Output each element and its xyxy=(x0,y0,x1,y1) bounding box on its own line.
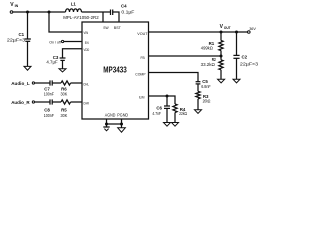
wire AGND stub xyxy=(106,119,108,127)
wire R6 to pin CHL xyxy=(71,82,82,84)
svg-text:IN: IN xyxy=(15,4,19,8)
wire top rail from VIN terminal to inductor xyxy=(13,11,66,13)
wire VIN drop to pin VIN xyxy=(49,12,82,32)
pin label VOUT xyxy=(137,32,147,36)
svg-text:30K: 30K xyxy=(61,92,69,97)
svg-text:C2: C2 xyxy=(242,54,248,59)
svg-text:Audio_L: Audio_L xyxy=(11,81,30,87)
svg-text:COMP: COMP xyxy=(135,73,146,77)
svg-text:Audio_R: Audio_R xyxy=(11,100,30,106)
svg-text:R6: R6 xyxy=(61,86,67,91)
capacitor C4 label xyxy=(121,4,135,15)
resistor R1 label xyxy=(201,41,215,51)
pin label ILIM xyxy=(139,96,145,100)
wire rail inductor to C4 xyxy=(82,11,111,13)
capacitor C3 label xyxy=(46,55,58,64)
ground below R4 xyxy=(172,123,179,127)
svg-text:33.2kΩ: 33.2kΩ xyxy=(201,62,216,67)
svg-text:VIN: VIN xyxy=(84,31,89,35)
svg-text:C4: C4 xyxy=(121,4,127,9)
capacitor C7 xyxy=(50,80,52,85)
node junction PGND tie xyxy=(120,123,123,126)
svg-text:On / off: On / off xyxy=(49,40,62,44)
wire R1 to FB node xyxy=(220,51,222,60)
capacitor C3 xyxy=(60,58,66,69)
capacitor C6 xyxy=(164,106,170,123)
wire R2 to ground xyxy=(220,70,222,80)
node junction VIN drop xyxy=(48,11,51,14)
svg-text:0.1µF: 0.1µF xyxy=(121,10,134,15)
svg-text:499kΩ: 499kΩ xyxy=(201,46,213,51)
svg-text:20kΩ: 20kΩ xyxy=(203,99,211,104)
ground below R3 xyxy=(195,110,202,114)
svg-text:ILIM: ILIM xyxy=(139,96,145,100)
svg-text:MP3433: MP3433 xyxy=(103,66,127,75)
wire Audio_R to C8 xyxy=(35,101,50,103)
wire Audio_L to C7 xyxy=(35,82,50,84)
wire R4 to ground xyxy=(174,113,176,123)
pin label COMP xyxy=(135,73,146,77)
wire AGND-PGND tie xyxy=(107,123,122,125)
svg-text:FB: FB xyxy=(141,56,146,60)
capacitor C2 label xyxy=(240,54,259,66)
wire ILIM xyxy=(149,96,176,104)
resistor R1 xyxy=(219,41,223,51)
node Audio_L terminal xyxy=(32,82,34,84)
svg-text:AGND: AGND xyxy=(105,112,116,117)
pin label EN xyxy=(85,41,89,45)
svg-text:C8: C8 xyxy=(44,108,50,113)
resistor R2 label xyxy=(201,57,216,67)
resistor R3 label xyxy=(203,94,211,104)
svg-text:CHL: CHL xyxy=(83,82,89,86)
ground below R2 xyxy=(218,79,225,83)
node Audio_R terminal xyxy=(32,101,34,103)
svg-text:PGND: PGND xyxy=(117,112,128,117)
node VOUT label xyxy=(220,24,231,30)
resistor R2 xyxy=(219,60,223,70)
svg-text:100nF: 100nF xyxy=(44,113,54,119)
svg-text:EN: EN xyxy=(85,41,89,45)
wire R3 to ground xyxy=(197,99,199,110)
wire VOUT to R1 xyxy=(220,32,222,41)
svg-text:C6: C6 xyxy=(156,106,162,111)
pin label CHR xyxy=(83,101,89,105)
ground below C1 xyxy=(24,66,31,70)
resistor R5 xyxy=(61,100,71,104)
ground below C6 xyxy=(164,123,171,127)
node 36V label xyxy=(249,26,256,31)
capacitor C7 label xyxy=(44,86,54,97)
svg-text:6.8nF: 6.8nF xyxy=(201,84,211,89)
capacitor C5 xyxy=(196,82,201,92)
wire PGND stub xyxy=(121,119,123,128)
resistor R6 xyxy=(61,81,71,85)
node junction C1 tap xyxy=(26,11,29,14)
resistor R6 label xyxy=(61,86,69,96)
svg-text:22µF×3: 22µF×3 xyxy=(240,61,259,66)
resistor R4 label xyxy=(179,107,187,116)
ground PGND xyxy=(118,128,126,132)
svg-text:VOUT: VOUT xyxy=(137,32,147,36)
node VIN label xyxy=(10,2,18,8)
wire COMP to C5 xyxy=(149,73,199,82)
svg-text:22µF×3: 22µF×3 xyxy=(7,37,26,42)
svg-text:MPL-AY1050-2R2: MPL-AY1050-2R2 xyxy=(63,15,99,21)
node VOUT terminal xyxy=(248,31,251,34)
svg-text:CHR: CHR xyxy=(83,101,89,105)
wire VDD to C3 xyxy=(63,49,83,58)
wire EN xyxy=(64,41,82,43)
node junction C6 tap xyxy=(166,95,169,98)
node junction FB xyxy=(220,55,223,58)
wire VOUT rail xyxy=(149,31,248,33)
ground AGND xyxy=(103,127,109,131)
resistor R3 xyxy=(196,91,200,99)
pin label AGND xyxy=(105,112,116,117)
node On/off label xyxy=(49,40,62,44)
svg-text:SW: SW xyxy=(103,26,109,30)
svg-text:R5: R5 xyxy=(61,108,67,113)
svg-text:BST: BST xyxy=(114,26,121,30)
wire R5 to pin CHR xyxy=(71,101,82,103)
pin label VDD xyxy=(84,48,90,52)
ground below C3 xyxy=(59,69,66,72)
svg-text:30K: 30K xyxy=(61,113,69,118)
resistor R4 xyxy=(173,104,177,113)
node junction R1 tap xyxy=(220,31,223,34)
pin label CHL xyxy=(83,82,89,86)
pin label FB xyxy=(141,56,146,60)
inductor L1 label xyxy=(71,2,77,7)
wire SW stub xyxy=(102,12,104,22)
capacitor C5 label xyxy=(201,79,211,89)
svg-text:100nF: 100nF xyxy=(44,92,54,98)
node EN on/off terminal xyxy=(62,40,64,42)
svg-text:22kΩ: 22kΩ xyxy=(179,111,187,116)
svg-text:C7: C7 xyxy=(44,86,50,91)
wire FB xyxy=(149,55,222,57)
node junction C2 tap xyxy=(235,31,238,34)
ground below C2 xyxy=(233,79,240,83)
svg-text:VDD: VDD xyxy=(84,48,90,52)
inductor L1 value MPL-AY1050-2R2 xyxy=(63,15,99,21)
capacitor C8 label xyxy=(44,108,54,119)
pin label PGND xyxy=(117,112,128,117)
capacitor C4 xyxy=(111,10,113,16)
resistor R5 label xyxy=(61,108,69,118)
wire C6 drop xyxy=(166,96,168,106)
svg-text:L1: L1 xyxy=(71,2,77,7)
wire C8 to R5 xyxy=(52,101,61,103)
svg-text:36V: 36V xyxy=(249,26,256,31)
capacitor C2 xyxy=(233,55,239,79)
op-amp U1 MP3433 label xyxy=(103,66,127,75)
inductor L1 xyxy=(66,9,82,12)
capacitor C1 label xyxy=(7,32,26,42)
node Audio_L label xyxy=(11,81,30,87)
svg-text:4.7nF: 4.7nF xyxy=(152,111,161,116)
svg-text:4.7µF: 4.7µF xyxy=(46,59,57,64)
node junction AGND tie xyxy=(105,123,108,126)
capacitor C8 xyxy=(50,99,52,104)
pin label SW xyxy=(103,26,109,30)
wire VOUT to C2 xyxy=(236,32,238,55)
pin label BST xyxy=(114,26,121,30)
svg-text:OUT: OUT xyxy=(224,26,231,30)
pin label VIN xyxy=(84,31,89,35)
wire C4 to BST xyxy=(113,12,119,22)
op-amp U1 MP3433 IC body xyxy=(82,22,149,119)
wire C7 to R6 xyxy=(52,82,61,84)
node Audio_R label xyxy=(11,100,30,106)
node VIN terminal xyxy=(10,11,13,14)
capacitor C1 xyxy=(25,12,31,66)
capacitor C6 label xyxy=(152,106,162,116)
